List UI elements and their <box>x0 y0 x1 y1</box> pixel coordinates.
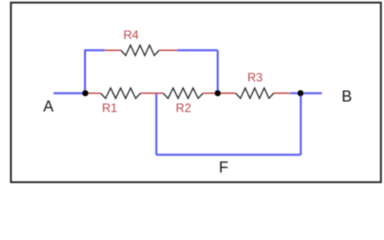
wire F left vertical <box>155 93 157 155</box>
svg-text:B: B <box>342 89 352 106</box>
resistor R4 body <box>121 45 159 55</box>
node J2 junction dot <box>215 90 221 96</box>
resistor R2 pin left <box>156 92 163 94</box>
wire B stub <box>301 92 322 94</box>
resistor R2 body <box>163 88 203 98</box>
svg-text:R4: R4 <box>123 28 139 42</box>
wire F right vertical <box>300 93 302 155</box>
wire A stub <box>54 92 85 94</box>
resistor R4 pin left <box>105 49 121 51</box>
wire J1 up <box>84 50 86 93</box>
resistor R1 body <box>101 88 141 98</box>
resistor R4 pin right <box>159 49 177 51</box>
node J1 junction dot <box>82 90 88 96</box>
svg-text:R2: R2 <box>176 101 192 115</box>
wire J2 down <box>217 50 219 93</box>
wire top right <box>178 49 218 51</box>
svg-text:R3: R3 <box>247 70 263 84</box>
resistor R1 pin right <box>141 92 157 94</box>
wire F bottom <box>156 154 300 156</box>
svg-text:F: F <box>219 159 228 176</box>
resistor R2 pin right <box>203 92 217 94</box>
resistor R3 pin left <box>220 92 236 94</box>
resistor R3 body <box>236 88 274 98</box>
resistor R3 pin right <box>274 92 291 94</box>
svg-text:R1: R1 <box>102 101 118 115</box>
svg-text:A: A <box>43 98 54 115</box>
resistor R1 pin left <box>86 92 101 94</box>
border frame (decorative) <box>11 3 381 183</box>
node J3 junction dot <box>297 90 303 96</box>
wire top left <box>84 49 105 51</box>
wire R3 to J3 <box>290 92 300 94</box>
